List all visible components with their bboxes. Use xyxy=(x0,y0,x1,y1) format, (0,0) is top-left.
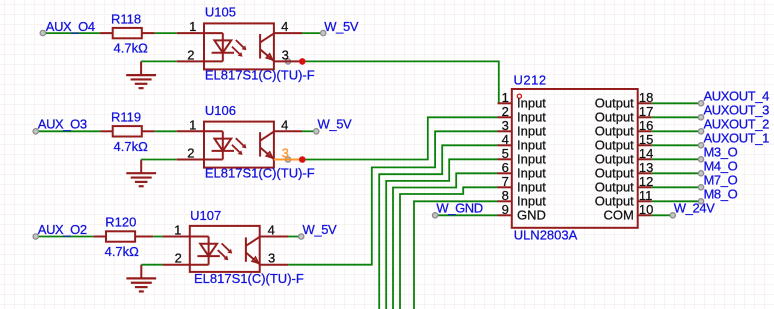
svg-text:18: 18 xyxy=(639,90,653,105)
svg-text:16: 16 xyxy=(639,118,653,133)
svg-text:Output: Output xyxy=(595,194,634,209)
svg-text:Output: Output xyxy=(595,166,634,181)
resistor R120 xyxy=(93,215,153,259)
svg-text:M3_O: M3_O xyxy=(704,145,738,160)
svg-text:Output: Output xyxy=(595,138,634,153)
svg-text:U212: U212 xyxy=(514,72,547,87)
svg-text:4: 4 xyxy=(502,132,509,147)
svg-text:AUX_O3: AUX_O3 xyxy=(38,117,87,132)
U212 pin 16 xyxy=(595,118,654,139)
svg-text:11: 11 xyxy=(639,188,653,203)
wire net to U212 pin7 xyxy=(400,187,498,309)
U105 value label xyxy=(205,67,315,82)
wire AUX_O3 to R119 xyxy=(36,130,100,132)
svg-text:2: 2 xyxy=(502,104,509,119)
U107 pin 1 xyxy=(163,223,190,238)
svg-text:GND: GND xyxy=(517,208,546,223)
svg-text:EL817S1(C)(TU)-F: EL817S1(C)(TU)-F xyxy=(205,67,315,82)
svg-text:3: 3 xyxy=(502,118,509,133)
svg-text:Input: Input xyxy=(517,166,546,181)
node AUXOUT_4 port xyxy=(698,89,769,106)
U212 pin 14 xyxy=(595,146,654,167)
svg-text:4.7kΩ: 4.7kΩ xyxy=(114,41,149,56)
U106 pin 1 xyxy=(177,117,204,132)
svg-text:ULN2803A: ULN2803A xyxy=(514,228,578,243)
U212 pin 7 xyxy=(498,174,547,195)
svg-text:13: 13 xyxy=(639,160,653,175)
U105 pin 4 xyxy=(274,19,302,34)
U212 pin 18 xyxy=(595,90,654,111)
node junction row1 pin3 xyxy=(299,58,306,65)
U106 pin 3 highlighted xyxy=(274,146,302,163)
wire U212 pin 15 to AUXOUT_1 xyxy=(652,144,701,146)
node W_24V port xyxy=(670,201,715,218)
svg-text:1: 1 xyxy=(189,19,196,34)
optocoupler U105 xyxy=(204,5,274,70)
node M8_O port xyxy=(698,187,737,204)
wire U212 pin 18 to AUXOUT_4 xyxy=(652,102,701,104)
node M3_O port xyxy=(698,145,737,162)
svg-text:M8_O: M8_O xyxy=(704,187,738,202)
svg-text:AUXOUT_3: AUXOUT_3 xyxy=(704,103,770,118)
U212 pin 5 xyxy=(498,146,547,167)
U212 pin 2 xyxy=(498,104,547,125)
node M4_O port xyxy=(698,159,737,176)
svg-text:Input: Input xyxy=(517,110,546,125)
wire U107 pin4 to W_5V xyxy=(288,236,301,238)
U107 pin 3 xyxy=(260,251,289,266)
svg-text:R119: R119 xyxy=(111,110,141,125)
U212 pin 1 xyxy=(498,90,547,111)
svg-text:17: 17 xyxy=(639,104,653,119)
svg-text:AUXOUT_1: AUXOUT_1 xyxy=(704,131,770,146)
resistor R118 xyxy=(100,11,155,55)
wire U212 pin 17 to AUXOUT_3 xyxy=(652,116,701,118)
svg-text:AUX_O4: AUX_O4 xyxy=(46,19,95,34)
U212 pin 12 xyxy=(595,174,654,195)
wire AUX_O2 to R120 xyxy=(36,236,94,238)
ground GND2 xyxy=(126,160,156,187)
U212 pin 3 xyxy=(498,118,547,139)
svg-text:W_24V: W_24V xyxy=(674,201,715,216)
svg-text:7: 7 xyxy=(502,174,509,189)
wire U105 pin3 to U212 pin1 xyxy=(302,61,499,103)
wire U212 pin 14 to M3_O xyxy=(652,158,701,160)
U212 pin1 origin marker xyxy=(517,94,521,98)
U107 value label xyxy=(194,271,304,286)
U105 pin 3 xyxy=(274,47,302,64)
svg-text:U105: U105 xyxy=(205,5,236,20)
svg-text:12: 12 xyxy=(639,174,653,189)
U212 pin 8 xyxy=(498,188,547,209)
optocoupler U106 xyxy=(204,103,274,168)
optocoupler U107 xyxy=(190,208,260,272)
svg-text:2: 2 xyxy=(187,47,194,62)
svg-text:1: 1 xyxy=(174,223,181,238)
svg-text:Output: Output xyxy=(595,110,634,125)
U212 pin 9 xyxy=(498,202,546,223)
svg-text:Output: Output xyxy=(595,124,634,139)
svg-text:Output: Output xyxy=(595,180,634,195)
svg-text:2: 2 xyxy=(187,146,194,161)
svg-text:Output: Output xyxy=(595,152,634,167)
wire U107 pin3 to U212 pin3 xyxy=(288,131,497,264)
wire AUX_O4 to R118 xyxy=(43,32,100,34)
svg-text:AUXOUT_2: AUXOUT_2 xyxy=(704,117,770,132)
svg-text:Input: Input xyxy=(517,138,546,153)
svg-text:M7_O: M7_O xyxy=(704,173,738,188)
wire net to U212 pin8 xyxy=(414,201,498,309)
wire R120 to U107 pin1 xyxy=(153,236,162,238)
node AUXOUT_1 port xyxy=(698,131,769,148)
resistor R119 xyxy=(100,110,155,154)
svg-text:3: 3 xyxy=(282,146,289,161)
svg-text:Output: Output xyxy=(595,96,634,111)
U106 pin 2 xyxy=(177,146,204,161)
svg-text:M4_O: M4_O xyxy=(704,159,738,174)
transistor-array U212 body xyxy=(512,72,638,228)
svg-text:10: 10 xyxy=(639,202,653,217)
svg-text:R118: R118 xyxy=(111,11,141,26)
svg-text:R120: R120 xyxy=(105,215,136,230)
wire ground to U107 pin2 xyxy=(141,264,162,266)
wire W_GND to U212 pin9 xyxy=(435,214,497,216)
node W_GND port xyxy=(432,201,482,218)
U212 pin 11 xyxy=(595,188,653,209)
ground GND1 xyxy=(126,61,156,88)
svg-text:Input: Input xyxy=(517,96,546,111)
U212 pin 15 xyxy=(595,132,654,153)
node junction row2 pin3 xyxy=(299,156,306,163)
U212 pin 4 xyxy=(498,132,547,153)
svg-text:4: 4 xyxy=(281,117,288,132)
U105 pin 1 xyxy=(177,19,204,34)
U212 pin 17 xyxy=(595,104,654,125)
svg-text:3: 3 xyxy=(268,251,275,266)
node AUX_O4 port xyxy=(40,19,95,36)
wire U212 pin 16 to AUXOUT_2 xyxy=(652,130,701,132)
ground GND3 xyxy=(126,265,156,292)
svg-text:1: 1 xyxy=(502,90,509,105)
wire U212 pin 13 to M4_O xyxy=(652,172,701,174)
svg-text:4.7kΩ: 4.7kΩ xyxy=(114,139,149,154)
svg-text:Input: Input xyxy=(517,180,546,195)
wire U106 pin4 to W_5V xyxy=(302,130,316,132)
wire R118 to U105 pin1 xyxy=(155,32,177,34)
svg-text:5: 5 xyxy=(502,146,509,161)
svg-text:Input: Input xyxy=(517,152,546,167)
svg-text:6: 6 xyxy=(502,160,509,175)
U107 pin 4 xyxy=(260,223,288,238)
wire U212 pin 12 to M7_O xyxy=(652,186,701,188)
svg-text:Input: Input xyxy=(517,194,546,209)
svg-text:U107: U107 xyxy=(190,208,221,223)
wire R119 to U106 pin1 xyxy=(155,130,177,132)
wire U212 pin 11 to M8_O xyxy=(652,200,701,202)
svg-text:W_5V: W_5V xyxy=(324,19,359,34)
svg-text:2: 2 xyxy=(175,251,182,266)
svg-text:COM: COM xyxy=(603,208,633,223)
U106 value label xyxy=(205,166,315,181)
node M7_O port xyxy=(698,173,737,190)
svg-text:1: 1 xyxy=(189,117,196,132)
svg-text:U106: U106 xyxy=(205,103,236,118)
U106 pin 4 xyxy=(274,117,302,132)
svg-text:4.7kΩ: 4.7kΩ xyxy=(105,244,140,259)
wire net to U212 pin4 xyxy=(379,145,497,309)
svg-text:W_5V: W_5V xyxy=(318,117,353,132)
node AUXOUT_3 port xyxy=(698,103,769,120)
svg-text:EL817S1(C)(TU)-F: EL817S1(C)(TU)-F xyxy=(205,166,315,181)
node W_5V port row3 xyxy=(299,222,338,239)
U105 pin 2 xyxy=(177,47,204,62)
svg-text:14: 14 xyxy=(639,146,653,161)
node W_5V port row1 xyxy=(321,19,359,36)
svg-text:AUXOUT_4: AUXOUT_4 xyxy=(704,89,770,104)
svg-text:3: 3 xyxy=(282,47,289,62)
wire net to U212 pin5 xyxy=(386,159,497,309)
node AUXOUT_2 port xyxy=(698,117,769,134)
wire ground to U105 pin2 xyxy=(141,60,177,62)
svg-text:W_GND: W_GND xyxy=(436,201,482,216)
U212 value label xyxy=(514,228,578,243)
svg-text:AUX_O2: AUX_O2 xyxy=(38,222,87,237)
svg-text:EL817S1(C)(TU)-F: EL817S1(C)(TU)-F xyxy=(194,271,304,286)
svg-text:Input: Input xyxy=(517,124,546,139)
wire U212 pin10 to W_24V xyxy=(652,214,673,216)
svg-text:8: 8 xyxy=(502,188,509,203)
U212 pin 10 xyxy=(603,202,653,223)
svg-text:4: 4 xyxy=(281,19,288,34)
node W_5V port row2 xyxy=(314,117,352,134)
U107 pin 2 xyxy=(163,251,190,266)
U212 pin 13 xyxy=(595,160,654,181)
wire ground to U106 pin2 xyxy=(141,159,177,161)
wire net to U212 pin6 xyxy=(393,173,498,309)
node AUX_O3 port xyxy=(33,117,87,134)
wire U106 pin3 to U212 pin2 xyxy=(302,117,497,159)
wire U105 pin4 to W_5V xyxy=(302,32,323,34)
svg-text:15: 15 xyxy=(639,132,653,147)
svg-text:W_5V: W_5V xyxy=(303,222,338,237)
svg-text:4: 4 xyxy=(268,223,275,238)
U212 pin 6 xyxy=(498,160,547,181)
svg-text:9: 9 xyxy=(502,202,509,217)
node AUX_O2 port xyxy=(33,222,87,239)
